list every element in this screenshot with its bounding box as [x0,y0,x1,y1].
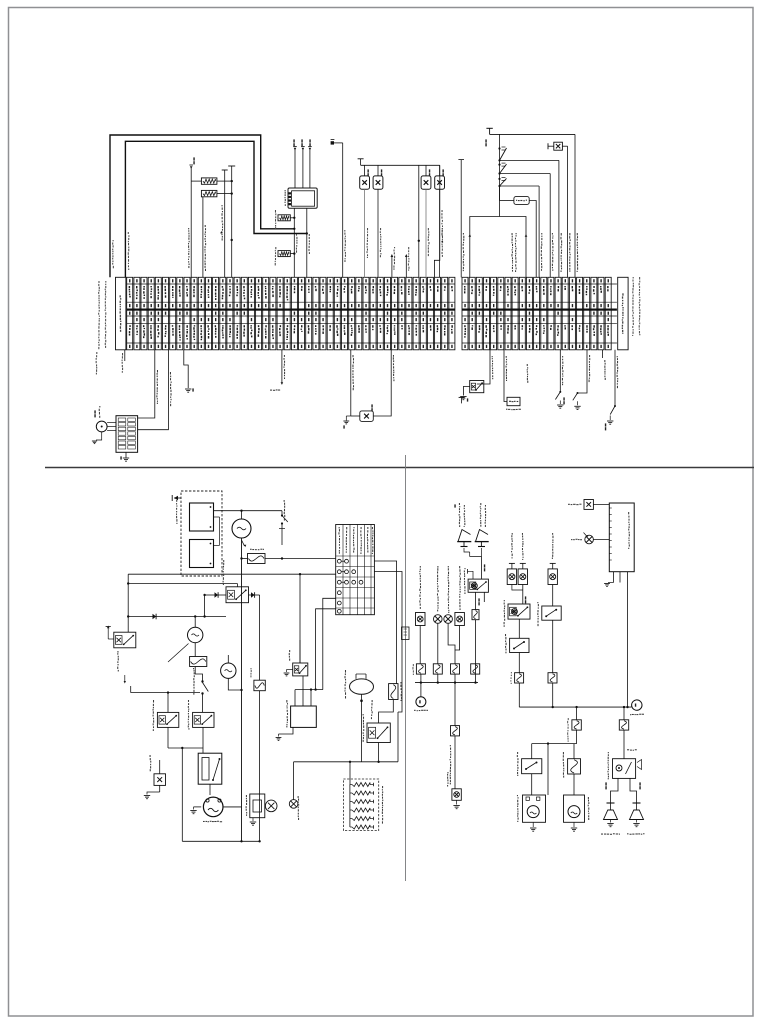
wire strip to block pin 2 [138,350,172,430]
wire battery 30 supply bus [485,128,575,146]
24VDC converter box [500,186,537,277]
wire horizontal flameout feed [128,595,226,618]
wire sensor C7 to strip [426,189,429,277]
lamp load box L1 [416,566,426,664]
terminal tick far right [459,397,465,403]
door control module [609,503,634,572]
relay horn low K8 [607,752,641,779]
switch S1 key position [498,147,506,161]
washer motor M5 [564,795,590,831]
relay stop solenoid K5 [284,640,308,676]
wire glow feed bus [294,712,398,785]
horn HS2 bottom [627,803,644,835]
turn lamp right [518,533,527,585]
wire tachometer signal with terminal [331,140,346,278]
resistor R1 pull-up [201,178,217,184]
switch S6 with ground [555,350,564,408]
ground battery negative [172,495,181,501]
wire CAN_H from module to strip [294,208,297,277]
resistor RL1 120ohm CAN terminator [275,210,296,229]
fuse FS-50A [379,682,402,723]
fuse wiper F1 [532,707,582,795]
wire ground bus bottom left [182,748,260,843]
wire strip to block pin 1 [138,350,158,418]
battery pack dashed enclosure [176,491,222,576]
ignition switch trunk [499,134,501,216]
stop solenoid box [276,676,323,741]
battery terminal box BAT [506,397,521,410]
fuse horn S3 [472,592,484,682]
battery disconnect switch [279,500,288,545]
tail lamp box [447,772,461,809]
fuse F4-5A [510,672,523,707]
fuse FW-10 [190,657,207,681]
wire switch S3 output [500,186,540,277]
fuse F5-5A [471,664,480,674]
gauge temperature M1 [168,615,203,662]
ground below block [120,452,129,461]
wire sensor C8 to strip [440,189,443,277]
wire battery to ammeter and switch [214,510,283,520]
relay backup alarm [460,381,484,402]
wire leftmost drop strip B [458,160,464,278]
wire module top pins with arrows [293,139,312,188]
connector stub on divider [402,627,410,640]
ground bolt B2 [246,794,277,825]
switch turn S-2 [505,634,529,673]
wire table feeds right [374,561,402,712]
wire key feed horizontal [131,686,200,712]
gauge VR with connector block [92,406,138,452]
gauge fuel M2 [221,655,242,690]
relay glow K6 [363,714,391,762]
fuse horn F0 [619,707,636,759]
sensor switch C8 [435,165,445,189]
fuse F with holder top right [548,142,568,277]
labels above strip B [463,233,579,272]
wire 24V_VCC rail [220,170,228,277]
wire CAN_L from module to strip [307,208,310,277]
switch S3 key position [498,177,506,187]
relay cutoff K2 [153,700,203,749]
strip left rotated label text [98,281,106,349]
lamp load box L4 [455,566,465,650]
dome lamp [571,533,609,544]
fuse F6-10A chain [450,683,460,789]
battery G2 24V [190,540,214,568]
relay start K3 [188,700,214,753]
relay start K1 with diode [203,560,248,603]
wire accelerator pedal stub 2 [405,247,410,277]
wire switch S1 output [500,160,559,277]
resistor RL2 120ohm CAN terminator [275,247,296,265]
wire 24V_VCC jog to strip [434,165,443,277]
switch brake S-3 [537,602,561,673]
wire accelerator pedal stub 1 [391,247,396,277]
section divider vertical [405,455,407,881]
wire turn lamps merge [512,585,526,605]
wire resistor common right rail with ground flag [217,166,235,277]
fuse F8-5A [433,664,442,683]
diode D1 on flameout feed [153,614,157,620]
wire CAN stubs below strip left [96,350,125,375]
fuse F7-5A [451,664,460,683]
ignition switch table [336,525,375,615]
wire battery series link [214,517,220,545]
sensor switch C5 [360,165,370,189]
wire supply right drop [574,134,576,277]
wire resistor R1 left to sensor C2 [189,157,201,181]
switch S2 key position [498,163,506,174]
fuse F9-5A [412,664,425,683]
ECU connector strip J2 (HCU, right block) [462,277,628,350]
starter relay K4 [198,753,222,795]
wire resistor R1 branch to strip [188,181,191,277]
key switch lock [193,668,208,712]
ECU connector strip J1 (vehicle harness, left block) [116,277,456,350]
wire resistor R2 left to strip [201,197,206,277]
wire sensor C5 to strip [365,189,368,277]
section divider horizontal [45,467,754,469]
door switch box [568,500,609,510]
wire to battery BAT [504,350,528,402]
wire CAN bus loop inner [125,141,308,277]
fuse FS-20A [242,549,336,564]
resistor R2 pull-up [201,190,217,196]
fuse F2-10A [250,668,265,841]
lamp load L3 [444,566,455,664]
label CAN_L CAN_H wires [112,232,129,270]
diode D2 [249,592,260,680]
starter motor M3 [190,797,241,822]
horn symbol HS2 [475,503,489,547]
sensor switch C7 [421,165,431,189]
switch wiper S-1 [517,752,542,795]
washer resistor [563,752,581,795]
strip right rotated label text [632,277,640,336]
wire ammeter main feed down [240,538,242,841]
horn symbol HS1 [454,503,471,547]
turn lamp left [507,533,516,585]
wire horns to relay [464,548,485,579]
wire sensor bus drop to strip [418,165,420,277]
wire short stub with ground 3 [184,350,194,392]
relay flasher S-1 [504,600,530,638]
node circle B1 [414,683,428,712]
wire CAN bus loop outer [110,135,295,277]
fuel regulator oval [344,670,373,762]
horn HS1 bottom [601,803,620,835]
sensor switch C6 [373,165,383,189]
ammeter A1 [232,519,251,547]
wire sensor C6 to strip [378,189,381,277]
indicator lamp dashboard [289,762,299,820]
relay horn K7 [464,568,489,594]
fuse F3-5A [548,673,557,707]
wire table feeds left [127,573,336,690]
wire loop to strip B left [469,217,528,278]
wire switch S2 output [500,174,551,278]
indicator lamp box [144,755,166,799]
wire relay to horns [605,778,640,803]
switch S1 with ground [605,350,618,431]
wire generator stub [270,350,285,391]
wire main bus B2 [519,700,644,715]
brake lamp load [548,533,557,606]
wire to backup relay B5 [477,350,493,384]
battery G1 24V [190,503,214,531]
display module U1 SY05A6 [285,188,318,208]
wire sensor supply bus [358,159,440,166]
relay flameout solenoid [106,626,136,684]
module ground pins [604,572,627,707]
wiper motor M4 [517,795,546,831]
glow plug bank GR-10 [343,779,383,831]
lamp load L2 [434,566,443,664]
wire stub parking [603,350,606,380]
switch brake with ground [573,350,590,410]
coolant sensor block [343,350,394,429]
wire fuse bus left group [415,681,478,683]
